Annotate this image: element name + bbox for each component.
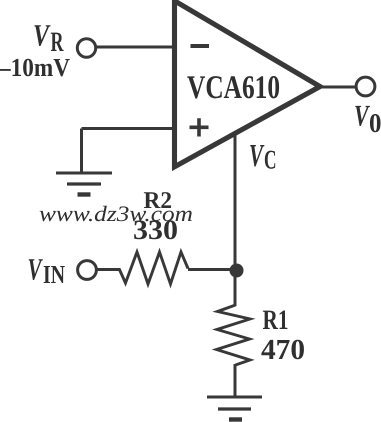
svg-text:V: V <box>249 137 265 173</box>
svg-text:V: V <box>28 252 44 287</box>
ground bottom <box>207 397 262 420</box>
wire R1 to ground <box>234 364 237 397</box>
svg-text:VCA610: VCA610 <box>187 70 280 106</box>
ground left <box>56 173 112 195</box>
terminal circle VR <box>77 39 95 57</box>
svg-text:V: V <box>33 18 51 53</box>
terminal circle VIN <box>78 261 97 280</box>
wire R2 to junction <box>188 268 236 271</box>
wire VIN terminal to R2 <box>96 268 120 271</box>
svg-text:0: 0 <box>369 108 381 138</box>
wire VC vertical from op-amp bottom edge to junction <box>234 133 237 264</box>
op-amp plus input symbol <box>190 118 209 136</box>
svg-text:R1: R1 <box>263 305 289 336</box>
op-amp minus input symbol <box>191 44 210 48</box>
resistor R1 zigzag <box>217 305 251 365</box>
wire VR terminal to minus input <box>96 46 174 49</box>
wire plus input horizontal <box>82 127 175 130</box>
wire junction down to R1 <box>234 270 237 306</box>
op-amp U1 VCA610 triangle <box>175 1 321 167</box>
resistor R2 zigzag <box>119 252 188 284</box>
svg-text:–10mV: –10mV <box>0 53 70 82</box>
svg-text:330: 330 <box>133 215 178 246</box>
wire plus input vertical to ground <box>80 129 83 174</box>
svg-text:IN: IN <box>43 260 65 289</box>
svg-text:C: C <box>264 145 277 175</box>
svg-text:470: 470 <box>261 334 305 366</box>
terminal circle V0 <box>356 77 375 96</box>
wire output apex to terminal <box>320 86 356 89</box>
svg-text:R2: R2 <box>144 188 173 214</box>
junction node dot <box>230 264 244 278</box>
